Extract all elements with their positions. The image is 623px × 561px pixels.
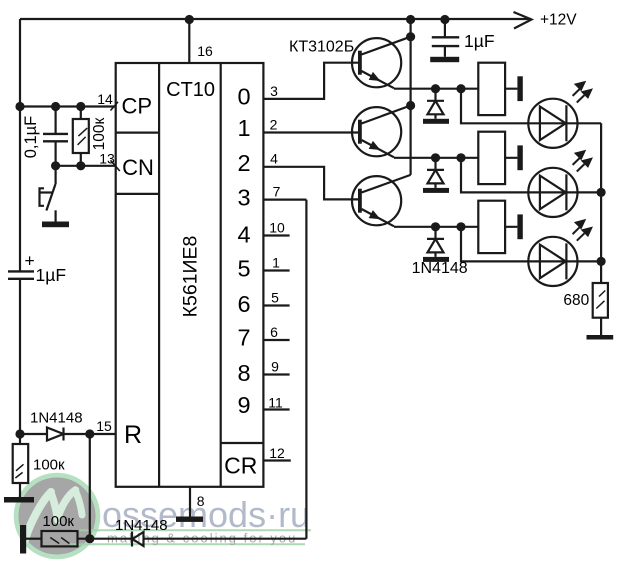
svg-text:7: 7 (273, 184, 281, 200)
svg-text:4: 4 (237, 221, 250, 247)
svg-text:8: 8 (197, 493, 205, 509)
svg-text:0: 0 (237, 84, 250, 110)
svg-text:6: 6 (237, 291, 250, 317)
svg-text:100к: 100к (91, 117, 108, 150)
svg-text:8: 8 (237, 360, 250, 386)
svg-text:16: 16 (197, 43, 213, 59)
svg-text:CR: CR (224, 453, 257, 479)
svg-text:3: 3 (237, 185, 250, 211)
svg-text:CT10: CT10 (166, 79, 215, 101)
svg-text:680: 680 (563, 292, 589, 309)
svg-text:15: 15 (96, 418, 112, 434)
svg-text:1: 1 (272, 255, 280, 271)
svg-text:100к: 100к (33, 457, 65, 474)
svg-text:1N4148: 1N4148 (412, 260, 468, 277)
svg-text:6: 6 (270, 324, 278, 340)
svg-text:10: 10 (269, 220, 285, 236)
svg-text:+12V: +12V (540, 12, 577, 29)
svg-text:4: 4 (270, 151, 278, 167)
svg-text:1N4148: 1N4148 (115, 517, 168, 534)
svg-text:1µF: 1µF (36, 265, 67, 285)
svg-text:2: 2 (270, 117, 278, 133)
svg-text:13: 13 (99, 151, 115, 167)
svg-text:CP: CP (122, 94, 153, 119)
svg-text:R: R (124, 421, 142, 449)
svg-text:11: 11 (268, 395, 283, 411)
svg-text:КТ3102Б: КТ3102Б (289, 39, 354, 56)
svg-text:0,1µF: 0,1µF (22, 116, 40, 159)
svg-text:1N4148: 1N4148 (30, 410, 83, 427)
svg-text:1µF: 1µF (464, 31, 495, 51)
svg-text:3: 3 (270, 83, 278, 99)
svg-text:12: 12 (269, 445, 285, 461)
svg-text:5: 5 (271, 290, 279, 306)
svg-text:9: 9 (271, 359, 279, 375)
svg-text:7: 7 (237, 325, 250, 351)
svg-text:CN: CN (122, 155, 154, 180)
svg-text:+: + (25, 251, 35, 271)
svg-text:К561ИЕ8: К561ИЕ8 (180, 236, 202, 318)
svg-text:100к: 100к (42, 513, 74, 530)
svg-text:1: 1 (237, 115, 250, 141)
svg-text:2: 2 (237, 150, 250, 176)
svg-text:5: 5 (237, 256, 250, 282)
svg-text:14: 14 (97, 91, 113, 107)
svg-text:9: 9 (237, 392, 250, 418)
